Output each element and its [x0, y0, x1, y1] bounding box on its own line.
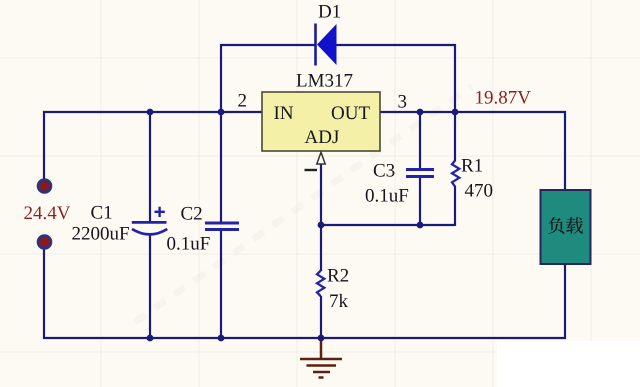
ADJ pin arrow [317, 152, 325, 164]
junction at ground node [318, 335, 325, 342]
pin label ADJ [305, 130, 339, 143]
junction at node 2 [218, 109, 225, 116]
label LM317 [297, 74, 353, 87]
wire R1 branch lower [454, 186, 456, 226]
wire feedback node down to R2 [320, 225, 322, 271]
ADJ minus sign [305, 169, 318, 171]
resistor R1 [452, 161, 459, 187]
wire R2 bottom to ground rail [320, 296, 322, 339]
wire left vertical source top [43, 111, 45, 181]
value 2200uF [72, 227, 129, 240]
junction at feedback node [318, 222, 325, 229]
label 19.87V [476, 91, 531, 104]
wire left vertical source bottom [43, 247, 45, 339]
source terminal positive [38, 180, 50, 192]
capacitor C1 plates [132, 222, 168, 234]
capacitor C2 plates [205, 223, 239, 230]
wire right vertical down to load [564, 111, 566, 191]
label R2 [328, 269, 349, 282]
wire top diode rail left segment [221, 44, 315, 46]
label C3 [374, 164, 395, 177]
pin number 3 [398, 95, 406, 108]
wire C2 branch upper [220, 111, 222, 223]
label load 负载 [548, 217, 564, 234]
pin label IN [274, 107, 293, 119]
wire input rail to IN pin [43, 111, 262, 113]
value 470 [465, 184, 492, 197]
wire C1 branch lower [149, 235, 151, 339]
junction at C1 top [147, 109, 154, 116]
junction at C3 top [417, 109, 424, 116]
capacitor C1 plus mark [155, 207, 165, 217]
label 24.4V [24, 206, 70, 219]
diode D1 [316, 24, 337, 66]
resistor R2 [317, 271, 324, 297]
ground [300, 341, 342, 378]
wire bottom ground rail [43, 337, 566, 339]
pin number 2 [238, 94, 246, 107]
wire C3 branch lower [419, 177, 421, 226]
source terminal negative [38, 236, 50, 248]
label R1 [462, 159, 482, 172]
wire C3 branch upper [419, 111, 421, 169]
value 0.1uF (C2) [167, 237, 209, 250]
pin label OUT [332, 106, 370, 119]
junction at R1 top [452, 109, 459, 116]
junction at C2 bottom [218, 335, 225, 342]
wire output rail from OUT pin [380, 111, 566, 113]
label C2 [181, 207, 201, 220]
wire feedback rail to R1 C3 bottom [321, 224, 455, 226]
wire ADJ pin down to feedback node [320, 164, 322, 226]
label C1 [91, 206, 111, 219]
label D1 [319, 5, 341, 18]
junction at C3 bottom [417, 222, 424, 229]
capacitor C3 plates [406, 170, 434, 177]
wire R1 branch upper [454, 111, 456, 161]
junction at C1 bottom [147, 335, 154, 342]
value 0.1uF (C3) [366, 189, 408, 202]
wire vertical from node 2 up to diode rail [220, 44, 222, 113]
wire C2 branch lower [220, 229, 222, 339]
wire C1 branch upper [149, 111, 151, 222]
wire vertical from diode rail down to node 3 rail [454, 44, 456, 113]
wire load bottom to ground rail [564, 263, 566, 339]
load box [541, 190, 591, 264]
regulator U1 LM317 body [262, 92, 380, 151]
value 7k [330, 294, 348, 307]
wire top diode rail right segment [336, 44, 456, 46]
